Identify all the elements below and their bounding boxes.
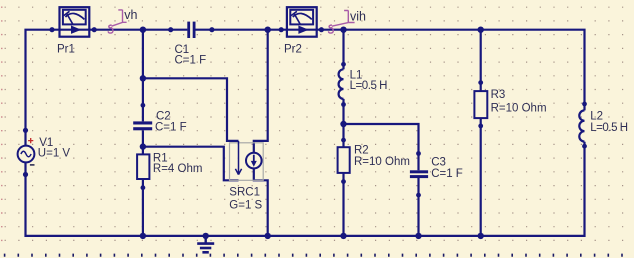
wire R3 branch upper (top rail to R3 top): [480, 30, 482, 91]
svg-text:Pr1: Pr1: [57, 43, 75, 55]
svg-text:L=0.5 H: L=0.5 H: [350, 80, 388, 92]
svg-text:R=10 Ohm: R=10 Ohm: [491, 103, 547, 115]
R3 top pin dot: [478, 80, 483, 85]
resistor R3: [474, 91, 487, 118]
svg-text:C=1 F: C=1 F: [155, 122, 187, 134]
junction node D (L1/R2/C3): [340, 121, 346, 127]
V1 plus sign: [28, 138, 33, 143]
ground: [197, 236, 214, 252]
wire R1 bottom to bottom rail: [142, 179, 144, 236]
wire top rail right segment + right rail upper (C1 right plate to top-right corner to L2 top): [195, 30, 584, 111]
wire node D to C3 top plate (right then down): [344, 124, 419, 170]
inductor L2: [579, 110, 584, 141]
node label vh leader line: [112, 10, 127, 26]
svg-text:L2: L2: [590, 111, 603, 123]
L2 bottom pin dot: [582, 144, 587, 149]
resistor R1: [137, 154, 149, 179]
wire C2 bottom plate to R1 top: [142, 130, 144, 154]
SRC1 control arrow: [235, 141, 241, 175]
junction L1 branch at top rail: [340, 27, 346, 33]
svg-text:R2: R2: [354, 144, 369, 156]
capacitor C3: [410, 170, 428, 178]
VCCS SRC1 symbol outline: [230, 143, 264, 181]
L2 top pin dot: [582, 102, 587, 107]
Pr2 left pin dot: [279, 27, 284, 32]
junction R1 at bottom rail: [140, 233, 146, 239]
node label vih curl: [329, 25, 334, 33]
node label vh curl: [108, 25, 113, 33]
svg-text:C=1 F: C=1 F: [175, 55, 207, 67]
wire SRC1 output top lead (top rail down to circle top): [254, 30, 268, 153]
wire control- branch (node C right, down, to SRC1 pin 4): [143, 147, 239, 181]
ground junction on bottom rail: [203, 233, 209, 239]
current probe Pr2: [286, 7, 317, 37]
junction SRC1 output at top rail: [265, 27, 271, 33]
SRC1 current source arrow: [253, 155, 255, 163]
wire C3 bottom plate to bottom rail: [417, 178, 419, 236]
junction SRC1 at bottom rail: [265, 233, 271, 239]
current probe Pr1: [59, 7, 90, 37]
svg-text:Pr2: Pr2: [284, 43, 302, 55]
C1 left pin dot: [168, 27, 173, 32]
junction R2 at bottom rail: [340, 233, 346, 239]
svg-text:U=1 V: U=1 V: [38, 148, 71, 160]
C3 bottom pin dot: [416, 193, 421, 198]
svg-text:vh: vh: [124, 8, 137, 22]
wire SRC1 output bottom lead (circle bottom to bottom rail): [254, 168, 268, 236]
V1 minus sign: [30, 164, 35, 166]
svg-text:R3: R3: [491, 89, 506, 101]
wire R2 bottom to bottom rail: [342, 173, 344, 236]
junction node C control- tap: [140, 143, 146, 149]
wire node B vertical upper (top rail to C2 top plate): [142, 30, 144, 122]
V1 top pin dot: [23, 128, 28, 133]
svg-text:R=4 Ohm: R=4 Ohm: [153, 163, 203, 175]
C2 top pin dot: [141, 103, 146, 108]
wire node D to R2 top: [342, 124, 344, 147]
junction node B control+ tap: [140, 75, 146, 81]
svg-text:vih: vih: [350, 9, 366, 23]
junction node B at top rail: [140, 27, 146, 33]
svg-text:C2: C2: [156, 110, 171, 122]
wire control+ branch (node B y77 right, down, to SRC1 pin 1): [143, 78, 239, 141]
inductor L1: [339, 69, 344, 99]
capacitor C2: [133, 121, 152, 130]
R2 top pin dot: [341, 138, 346, 143]
capacitor C1: [187, 22, 195, 38]
resistor R2: [338, 147, 350, 173]
svg-text:L=0.5 H: L=0.5 H: [590, 122, 628, 134]
C1 right pin dot: [209, 27, 214, 32]
Pr1 left pin dot: [49, 27, 54, 32]
svg-text:R=10 Ohm: R=10 Ohm: [354, 156, 410, 168]
junction R3 at bottom rail: [478, 233, 484, 239]
V1 bottom pin dot: [23, 172, 28, 177]
voltage source V1: [18, 146, 35, 163]
L1 bottom pin dot: [341, 102, 346, 107]
wire left rail lower + bottom rail + right rail lower (V1 - to bottom rail to L2 bottom): [26, 142, 585, 236]
Pr2 right pin dot: [319, 27, 324, 32]
Pr1 right pin dot: [92, 27, 97, 32]
L1 top pin dot: [341, 62, 346, 67]
SRC1 current source circle: [246, 153, 262, 169]
R1 bottom pin dot: [141, 185, 146, 190]
wire L1 branch (top rail to L1 top pin): [342, 30, 344, 70]
R2 bottom pin dot: [341, 179, 346, 184]
svg-text:G=1 S: G=1 S: [229, 200, 262, 212]
R3 bottom pin dot: [478, 124, 483, 129]
wire R3 branch lower (R3 bottom to bottom rail): [480, 118, 482, 236]
junction R3 branch at top rail: [478, 27, 484, 33]
wire top rail left segment + left rail upper (C1 left plate to top-left corner to V1 +): [26, 30, 188, 146]
svg-text:C=1 F: C=1 F: [431, 168, 463, 180]
svg-text:SRC1: SRC1: [229, 186, 260, 198]
svg-text:C3: C3: [431, 156, 446, 168]
node label vih leader line: [332, 10, 355, 26]
junction C3 at bottom rail: [415, 233, 421, 239]
wire L1 bottom pin to node D junction: [342, 99, 344, 124]
C3 top pin dot: [416, 151, 421, 156]
